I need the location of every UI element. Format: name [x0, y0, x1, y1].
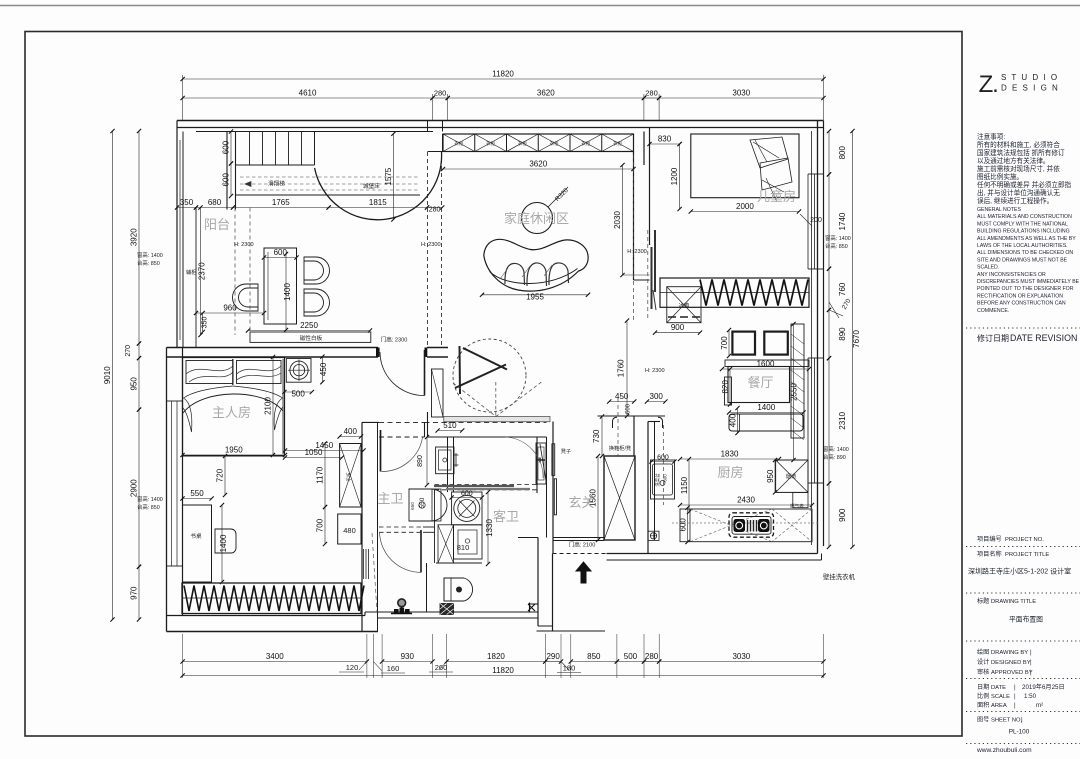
svg-text:POINTED OUT TO THE DESIGNER FO: POINTED OUT TO THE DESIGNER FOR [977, 286, 1074, 292]
svg-text:830: 830 [658, 135, 672, 144]
dim 600 table [264, 257, 297, 259]
svg-text:450: 450 [319, 362, 328, 376]
dim 830 [650, 143, 680, 145]
svg-text:1760: 1760 [617, 359, 626, 377]
svg-text:1830: 1830 [721, 450, 739, 459]
shower symbol guest bath [398, 599, 406, 607]
svg-text:烟道: 烟道 [786, 472, 796, 480]
dim 400 [340, 436, 361, 438]
dim 600 stair a [230, 132, 232, 164]
svg-text:标题: 标题 [977, 597, 989, 605]
svg-text:面积: 面积 [977, 701, 989, 709]
svg-text:SHEET NO.: SHEET NO. [991, 718, 1023, 724]
svg-text:700: 700 [720, 336, 729, 350]
dim 3620 [448, 97, 644, 99]
svg-text:以及通过地方有关法律。: 以及通过地方有关法律。 [977, 156, 1050, 165]
svg-text:衣柜: 衣柜 [486, 140, 495, 147]
svg-text:书桌: 书桌 [190, 532, 202, 540]
towel shelf bars [434, 485, 514, 487]
door hinge marks [536, 458, 545, 463]
lower bath wall pieces [436, 562, 482, 564]
svg-text:600: 600 [222, 173, 231, 187]
svg-text:比例: 比例 [977, 692, 989, 700]
svg-text:燃气表: 燃气表 [790, 503, 804, 510]
dim 1760 [626, 321, 628, 416]
svg-text:RECTIFICATION OR EXPLANATION: RECTIFICATION OR EXPLANATION [977, 293, 1063, 299]
dim 4610 [183, 97, 433, 99]
hall floor drain kitchen corner [648, 531, 659, 540]
svg-text:1200: 1200 [670, 167, 679, 185]
whiteboard band [250, 332, 371, 342]
svg-text:1150: 1150 [680, 476, 689, 494]
balcony side cabinet strip [195, 208, 197, 348]
sofa cushion 2 [527, 263, 547, 286]
dim 1330 [487, 492, 489, 564]
svg-text:810: 810 [457, 543, 470, 552]
gray band above bath wall [444, 417, 550, 422]
bathroom bottom wall [365, 611, 538, 613]
svg-text:GENERAL NOTES: GENERAL NOTES [977, 207, 1021, 213]
svg-text:AREA: AREA [991, 703, 1007, 709]
svg-text:730: 730 [592, 429, 601, 443]
stair tread [249, 132, 251, 166]
master bath east wall [536, 437, 538, 493]
dim 2430 [680, 504, 812, 506]
right wall window children room [807, 174, 809, 269]
hall wall edge [633, 416, 635, 456]
kidney sofa outline [484, 239, 588, 291]
top exterior wall [177, 120, 824, 122]
svg-text:平柜: 平柜 [346, 472, 353, 482]
dim 270 [138, 344, 140, 359]
stairs block [226, 132, 228, 210]
master bath south doorway dashes [435, 484, 538, 486]
shower room door [420, 530, 422, 572]
svg-text:LAWS OF THE LOCAL AUTHORITIES.: LAWS OF THE LOCAL AUTHORITIES. [977, 243, 1068, 249]
svg-text:门高: 2100: 门高: 2100 [569, 541, 596, 549]
svg-text:2430: 2430 [737, 496, 755, 505]
svg-text:餐厅: 餐厅 [747, 375, 773, 390]
faucet marks [454, 453, 459, 467]
svg-text:项目编号: 项目编号 [977, 535, 1002, 543]
chair right 2 [304, 289, 330, 316]
svg-text:510: 510 [443, 421, 457, 430]
dim 300 [647, 401, 665, 403]
svg-text:550: 550 [190, 489, 204, 498]
svg-text:门高: 2300: 门高: 2300 [381, 336, 408, 344]
svg-text:出, 并与设计单位沟通确认无: 出, 并与设计单位沟通确认无 [977, 188, 1060, 197]
washbasin master bath [436, 447, 454, 474]
shoe cabinet [604, 456, 635, 540]
svg-text:280: 280 [429, 206, 441, 213]
svg-text:衣柜: 衣柜 [518, 140, 527, 147]
dim 11820 bottom [183, 675, 824, 677]
dim 2370 [200, 208, 202, 336]
svg-text:m²: m² [1036, 702, 1043, 709]
TV side view bar 2 [654, 230, 656, 292]
drape fold right [274, 398, 283, 430]
dim 700 [324, 507, 326, 544]
dim 1740 [828, 174, 830, 268]
svg-text:图纸比例实施。: 图纸比例实施。 [977, 172, 1023, 181]
dim 1560 [597, 456, 599, 540]
dim 950 [138, 358, 140, 410]
svg-text:磁性白板: 磁性白板 [300, 334, 323, 342]
svg-text:施工前需核对现场尺寸, 并依: 施工前需核对现场尺寸, 并依 [977, 164, 1060, 173]
dashed wall faces below arc [427, 152, 429, 348]
dining table [728, 367, 790, 403]
dim 1765 [233, 207, 329, 209]
svg-text:650: 650 [410, 502, 415, 510]
svg-text:7670: 7670 [852, 330, 861, 348]
left wall window lines [171, 401, 173, 566]
dim 2030 [622, 165, 624, 275]
svg-text:970: 970 [130, 586, 139, 600]
wall between bedroom zone and bath [361, 422, 363, 631]
flue box [776, 460, 808, 492]
svg-text:2030: 2030 [613, 211, 622, 229]
svg-text:台高: 890: 台高: 890 [823, 453, 846, 461]
dim 1400 bench [729, 412, 804, 414]
dim 890 bath [426, 437, 428, 485]
kitchen left wall [647, 422, 649, 554]
svg-text:H: 2300: H: 2300 [234, 242, 254, 248]
dining bench [729, 414, 803, 431]
floor drain hatched [440, 604, 454, 615]
dim 500 [284, 391, 312, 393]
dim 3400 [183, 661, 367, 663]
dim 2550 [793, 324, 795, 460]
children wardrobe [660, 278, 809, 307]
dim 350 [177, 207, 196, 209]
svg-text:11820: 11820 [492, 666, 514, 675]
dim 2310 [828, 358, 830, 483]
svg-text:400: 400 [344, 427, 358, 436]
interior wall between balcony zone and master bedroom [167, 347, 379, 349]
dim 1400 desk [221, 505, 223, 582]
dim 1200 [679, 144, 681, 209]
svg-text:城堡床: 城堡床 [363, 182, 380, 190]
svg-text:3030: 3030 [732, 89, 750, 98]
svg-text:DRAWING BY: DRAWING BY [991, 650, 1028, 656]
blanket dome arc [183, 394, 283, 413]
dim 1830 [680, 458, 779, 460]
dining sideboard band [725, 360, 809, 367]
dim 280d [427, 207, 442, 209]
top dimension chain overall 11820 [182, 75, 184, 120]
small cross marker [528, 603, 538, 613]
hall bench slat 2 [554, 479, 556, 515]
svg-text:D E S I G N: D E S I G N [1001, 84, 1059, 93]
svg-text:BEFORE ANY CONSTRUCTION CAN: BEFORE ANY CONSTRUCTION CAN [977, 301, 1066, 307]
svg-text:儿童房: 儿童房 [757, 189, 796, 204]
ceiling fixture box [286, 359, 311, 383]
svg-text:700: 700 [316, 518, 325, 532]
svg-text:壁挂洗衣机: 壁挂洗衣机 [823, 572, 856, 581]
chair left [233, 284, 258, 311]
svg-text:洗菜盆: 洗菜盆 [654, 473, 661, 487]
svg-text:衣柜: 衣柜 [613, 140, 622, 147]
stove grill bars [748, 520, 757, 532]
svg-text:图号: 图号 [977, 717, 989, 724]
bed foot wall line [183, 455, 286, 457]
top chain row: 4610/280/3620/280/3030 [432, 94, 434, 120]
sofa cushion 3 [549, 263, 569, 285]
dim 820 [729, 369, 731, 405]
stove inner [732, 517, 771, 535]
svg-text:台高: 850: 台高: 850 [137, 259, 160, 267]
svg-text:.: . [992, 71, 999, 98]
svg-text:台高: 850: 台高: 850 [825, 242, 848, 250]
left balcony wall (window) [176, 121, 178, 348]
pillow right [237, 361, 282, 384]
svg-text:1575: 1575 [384, 167, 393, 185]
svg-text:500: 500 [291, 390, 305, 399]
castle bed arc [315, 152, 442, 220]
svg-text:凳子: 凳子 [561, 447, 571, 455]
dim 700 chairs [728, 330, 730, 356]
svg-text:ANY INCONSISTENCIES OR: ANY INCONSISTENCIES OR [977, 272, 1046, 278]
svg-text:Z: Z [979, 71, 994, 98]
svg-text:注意事项:: 注意事项: [977, 132, 1005, 141]
svg-text:1:50: 1:50 [1024, 693, 1037, 700]
kitchen sink cabinet [651, 460, 675, 499]
swivel chair dashed circle [453, 339, 526, 412]
dim 290 [545, 661, 561, 663]
svg-text:600: 600 [626, 403, 632, 414]
dim 600 wm [452, 497, 482, 499]
wall between leisure area and children room [643, 132, 645, 166]
left exterior wall bedroom [166, 348, 168, 632]
svg-text:1400: 1400 [283, 283, 292, 301]
guest bath washbasin [536, 443, 546, 484]
svg-text:2370: 2370 [198, 262, 207, 280]
hall left wall [552, 422, 554, 554]
page top edge line [0, 5, 1080, 7]
counter center dashed line [672, 522, 818, 524]
bottom witness lines [182, 634, 184, 678]
central vertical wall x=433-448 [442, 134, 444, 152]
svg-text:1815: 1815 [369, 198, 387, 207]
drape fold left [183, 398, 192, 432]
svg-text:窗高: 1400: 窗高: 1400 [823, 445, 849, 453]
svg-text:国家建筑法规包括 抓所有修订: 国家建筑法规包括 抓所有修订 [977, 148, 1065, 157]
svg-text:修订日期: 修订日期 [977, 333, 1009, 343]
dim 970 [138, 567, 140, 620]
svg-text:3920: 3920 [130, 228, 139, 246]
svg-text:2900: 2900 [130, 479, 139, 497]
svg-text:280: 280 [645, 652, 659, 661]
right wall window dining [807, 358, 809, 483]
desk [183, 505, 212, 582]
TV side view bar 1 [651, 247, 653, 309]
thin cabinet with diagonal near wall [432, 369, 444, 417]
guest bath shower partition [426, 563, 428, 612]
svg-text:PROJECT TITLE: PROJECT TITLE [1005, 552, 1049, 558]
kitchen dashed guide [663, 425, 665, 505]
svg-text:SCALED.: SCALED. [977, 265, 999, 271]
dim 1950 [183, 454, 286, 456]
desk chair [215, 529, 236, 553]
svg-text:350: 350 [202, 317, 209, 329]
wardrobe band [182, 583, 361, 614]
dim 1955 [482, 294, 588, 296]
svg-text:900: 900 [838, 508, 847, 522]
svg-text:3400: 3400 [266, 652, 284, 661]
dim 3030b [659, 661, 823, 663]
dim 730 [601, 417, 603, 457]
dim 1575 [392, 134, 394, 220]
bottom exterior wall left block [167, 615, 366, 617]
svg-text:280: 280 [434, 89, 447, 98]
swivel strokes [455, 346, 507, 394]
svg-text:1765: 1765 [272, 198, 290, 207]
svg-text:480: 480 [343, 526, 356, 535]
svg-text:任何不明确或差异 并必须立即指: 任何不明确或差异 并必须立即指 [977, 180, 1072, 189]
box 480 [338, 514, 361, 544]
svg-text:衣柜: 衣柜 [454, 140, 463, 147]
svg-text:930: 930 [401, 652, 415, 661]
svg-text:680: 680 [208, 198, 222, 207]
dim 280b [644, 97, 659, 99]
entry arrow [576, 562, 591, 583]
entry top wall band [553, 537, 605, 539]
svg-text:PROJECT NO.: PROJECT NO. [1005, 537, 1044, 543]
dim 280 [433, 97, 448, 99]
guest bath door leaf [540, 444, 547, 484]
svg-text:ALL AMENDMENTS AS WELL AS THE: ALL AMENDMENTS AS WELL AS THE BY [977, 236, 1076, 242]
svg-text:270: 270 [125, 345, 132, 357]
svg-text:2250: 2250 [300, 321, 318, 330]
dim 550 [183, 498, 212, 500]
shower room door arc [380, 532, 422, 572]
svg-text:误后, 继续进行工程操作。: 误后, 继续进行工程操作。 [977, 196, 1053, 205]
svg-text:1400: 1400 [219, 534, 228, 552]
fridge box [667, 287, 701, 323]
svg-text:滑翔梯: 滑翔梯 [268, 180, 285, 188]
svg-text:SCALE: SCALE [991, 694, 1010, 700]
dim 1600 [722, 368, 809, 370]
dining chair 1 [732, 332, 755, 355]
dim 450 [321, 357, 323, 383]
dim 350b [202, 313, 204, 332]
svg-text:ALL MATERIALS AND CONSTRUCTION: ALL MATERIALS AND CONSTRUCTION [977, 214, 1072, 220]
hall/entry outline [537, 538, 539, 627]
hall bench slat 1 [552, 444, 555, 476]
dim 600 counter [687, 508, 689, 542]
dining chair 2 [764, 332, 788, 355]
pillow scribbles [750, 137, 792, 190]
svg-text:280: 280 [645, 89, 658, 98]
dim 400 bench [737, 408, 739, 433]
dim 1450 [285, 450, 364, 452]
svg-text:COMMENCE.: COMMENCE. [977, 308, 1009, 314]
kitchen counter [680, 509, 812, 542]
dim 800 [828, 131, 830, 174]
dim 500 [617, 661, 644, 663]
svg-text:家庭休闲区: 家庭休闲区 [504, 211, 569, 226]
dim 9010 [112, 131, 114, 620]
dim 7670 [852, 131, 854, 547]
svg-text:1600: 1600 [757, 360, 775, 369]
svg-text:9010: 9010 [103, 366, 112, 384]
kitchen bottom exterior wall [607, 553, 818, 555]
dim 1170 [324, 444, 326, 508]
svg-text:所有的材料和施工, 必须符合: 所有的材料和施工, 必须符合 [977, 140, 1060, 149]
leisure area lamp circle R320 [522, 203, 553, 234]
dim 950 [774, 460, 776, 492]
svg-text:950: 950 [766, 469, 775, 483]
svg-text:1950: 1950 [225, 446, 243, 455]
dim 2250 [248, 330, 370, 332]
divider wall master/guest bath [447, 437, 449, 492]
svg-text:180: 180 [563, 664, 576, 673]
shower area X box [438, 525, 454, 563]
dim 1050 [285, 457, 342, 459]
svg-text:DRAWING TITLE: DRAWING TITLE [991, 599, 1036, 605]
svg-text:辅柜: 辅柜 [186, 268, 196, 276]
balcony handcraft table [264, 248, 297, 324]
svg-text:审核: 审核 [977, 668, 989, 676]
dim 510 [438, 430, 463, 432]
svg-text:890: 890 [417, 455, 424, 467]
dim 680 [196, 207, 233, 209]
svg-text:日期: 日期 [977, 683, 989, 691]
svg-text:阳台: 阳台 [204, 217, 230, 232]
guest bath door arc [505, 437, 543, 478]
svg-text:APPROVED BY: APPROVED BY [991, 670, 1033, 676]
dim 2000 [691, 211, 799, 213]
svg-text:350: 350 [180, 198, 194, 207]
svg-text:3030: 3030 [732, 652, 750, 661]
dryer box [454, 525, 483, 559]
dim 600 sink [652, 461, 675, 463]
svg-text:1450: 1450 [315, 441, 333, 450]
svg-text:3620: 3620 [537, 89, 555, 98]
tall cabinet [791, 324, 804, 438]
svg-text:设计: 设计 [977, 658, 989, 666]
svg-text:760: 760 [838, 282, 847, 296]
svg-text:1820: 1820 [487, 652, 505, 661]
svg-text:窗高: 1400: 窗高: 1400 [137, 495, 163, 503]
dim 760 [828, 269, 830, 310]
entry threshold dashes [553, 553, 607, 555]
dim 3920 [138, 131, 140, 344]
children bed [691, 134, 799, 198]
svg-text:11820: 11820 [492, 70, 514, 79]
cabinet 400 with X [340, 444, 361, 508]
svg-text:平面布置图: 平面布置图 [1009, 615, 1043, 624]
svg-text:950: 950 [130, 377, 139, 391]
corridor neck wall with rounded ends [598, 415, 666, 417]
svg-text:850: 850 [587, 652, 601, 661]
dim 280c [644, 661, 659, 663]
svg-text:绘图: 绘图 [977, 648, 989, 656]
svg-text:1400: 1400 [757, 403, 775, 412]
hall dashed guideline [617, 398, 619, 456]
entry step lines [553, 630, 606, 632]
dim 450 hall [609, 401, 634, 403]
sofa cushion 1 [505, 263, 525, 285]
dim 890 [828, 310, 830, 358]
svg-text:4610: 4610 [299, 89, 317, 98]
svg-text:160: 160 [387, 664, 400, 673]
svg-text:主人房: 主人房 [212, 405, 251, 420]
closet row top (6 cells) [443, 134, 634, 152]
dim 1150 [688, 459, 690, 512]
dim 850 [571, 661, 617, 663]
dim 960 [196, 312, 264, 314]
